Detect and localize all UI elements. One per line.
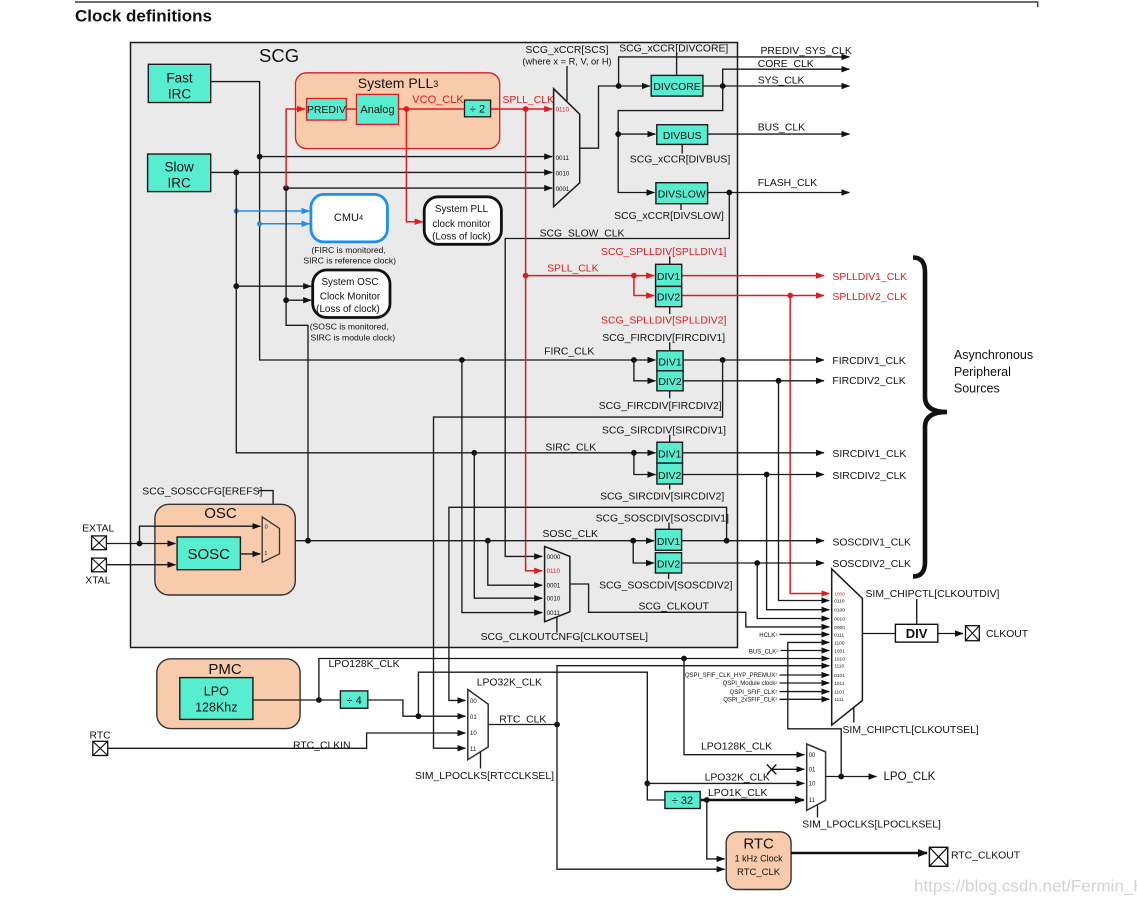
svg-text:PREDIV: PREDIV — [307, 104, 346, 116]
svg-text:1001: 1001 — [834, 648, 845, 654]
mux SIM_CHIPCTL[CLKOUTSEL] — [832, 569, 863, 725]
block CMU4 — [311, 194, 388, 242]
wire LPO32K to LPO mux 10 — [647, 782, 804, 784]
junction SOSCDIV1 tap — [724, 538, 730, 544]
wire 1kHz to RTC block — [707, 800, 725, 859]
svg-text:BUS_CLK2: BUS_CLK2 — [749, 648, 779, 656]
connector SCS config — [566, 66, 568, 101]
junction red VCO_CLK — [404, 106, 410, 112]
wire Slow IRC trunk (SIRC_CLK) — [211, 171, 553, 173]
svg-text:QSPI_SFIF_CLK_HYP_PREMUX2: QSPI_SFIF_CLK_HYP_PREMUX2 — [685, 672, 778, 679]
wire red PREDIV to Analog — [346, 108, 356, 110]
mux SIM_LPOCLKS[RTCCLKSEL] — [468, 690, 488, 760]
wire red VCO to PLL monitor — [406, 109, 422, 222]
wire LPO32K_CLK across — [418, 672, 665, 800]
svg-text:11: 11 — [470, 747, 477, 753]
wire Fast IRC trunk (FIRC_CLK) — [211, 82, 656, 360]
svg-text:DIV1: DIV1 — [657, 536, 681, 548]
svg-text:PREDIV_SYS_CLK: PREDIV_SYS_CLK — [761, 46, 852, 57]
block SOSCDIV DIV2 — [655, 553, 681, 573]
wire SIRC vertical trunk — [236, 172, 655, 452]
junction SOSC div branch — [630, 538, 636, 544]
svg-text:0110: 0110 — [547, 568, 561, 575]
junction red SPLLDIV2 tap — [787, 293, 793, 299]
svg-text:XTAL: XTAL — [85, 575, 110, 586]
svg-text:SCG_SOSCCFG[EREFS]: SCG_SOSCCFG[EREFS] — [142, 486, 262, 497]
wire SIRC to OSC monitor — [236, 285, 311, 287]
svg-text:SOSC_CLK: SOSC_CLK — [543, 529, 599, 540]
svg-text:LPO32K_CLK: LPO32K_CLK — [705, 772, 770, 783]
svg-text:BUS_CLK: BUS_CLK — [758, 123, 805, 134]
svg-text:SCG_CLKOUTCNFG[CLKOUTSEL]: SCG_CLKOUTCNFG[CLKOUTSEL] — [481, 632, 649, 643]
svg-text:CMU4: CMU4 — [334, 212, 363, 224]
wire RTC_CLK to SIM mux 1110 — [557, 666, 829, 725]
wire red SPLL vertical to CLKOUT mux 0110 — [526, 109, 543, 571]
svg-text:(Loss of clock): (Loss of clock) — [316, 304, 380, 315]
svg-text:Analog: Analog — [360, 104, 394, 116]
svg-text:FIRCDIV2_CLK: FIRCDIV2_CLK — [832, 376, 905, 387]
wire SOSCDIV1 tap to RTC mux 00 — [449, 507, 727, 700]
svg-text:1110: 1110 — [834, 664, 844, 670]
connector FIRCDIV configs — [669, 342, 671, 398]
wire red to SPLLDIV DIV2 — [634, 276, 654, 296]
svg-text:1 kHz Clock: 1 kHz Clock — [735, 854, 784, 864]
wire SIRC to DIV2 — [634, 453, 656, 475]
junction SIRC div branch — [631, 450, 637, 456]
mux SCS (SCG_xCCR[SCS]) — [554, 89, 580, 207]
connector SPLLDIV configs — [669, 257, 671, 315]
svg-text:SCG_xCCR[DIVSLOW]: SCG_xCCR[DIVSLOW] — [614, 211, 724, 222]
block Fast IRC — [148, 64, 210, 102]
svg-text:DIVBUS: DIVBUS — [663, 131, 702, 142]
svg-text:SPLL_CLK: SPLL_CLK — [547, 263, 598, 274]
svg-text:SPLLDIV2_CLK: SPLLDIV2_CLK — [832, 292, 907, 303]
wire SYS_CLK — [703, 85, 850, 87]
wire HCLK stub — [780, 633, 830, 635]
junction FIRC CLKOUT tap — [459, 357, 465, 363]
wire SOSCDIV2_CLK — [682, 562, 824, 564]
svg-text:SIRC_CLK: SIRC_CLK — [545, 442, 596, 453]
svg-text:RTC: RTC — [90, 731, 112, 742]
junction SOSC top trunk — [283, 185, 289, 191]
svg-text:0011: 0011 — [547, 610, 561, 617]
wire SCS mux output to DIVCORE — [580, 86, 650, 148]
block SIRCDIV DIV2 — [657, 463, 683, 484]
pad XTAL — [92, 558, 107, 572]
junction FIRC SCS tap — [257, 154, 263, 160]
wire SOSC to EREFS mux 1 — [240, 553, 260, 555]
block FIRCDIV DIV2 — [657, 371, 683, 391]
svg-text:SCG_FIRCDIV[FIRCDIV2]: SCG_FIRCDIV[FIRCDIV2] — [599, 401, 722, 412]
junction DIVCORE input — [616, 83, 622, 89]
svg-text:(FIRC is monitored,: (FIRC is monitored, — [311, 245, 386, 255]
block System PLL container — [296, 73, 500, 149]
wire SOSCDIV1_CLK — [682, 540, 824, 542]
connector SOSCDIV configs — [668, 523, 670, 580]
junction SOSC monitor tap — [283, 297, 289, 303]
block System PLL clock monitor — [424, 197, 501, 245]
svg-text:DIV: DIV — [906, 626, 928, 641]
svg-text:0: 0 — [265, 525, 268, 531]
svg-text:01: 01 — [470, 715, 477, 721]
svg-text:SIRCDIV2_CLK: SIRCDIV2_CLK — [832, 471, 906, 482]
page top rule — [75, 2, 1038, 7]
junction SIRC monitor tap — [233, 283, 239, 289]
svg-text:Peripheral: Peripheral — [954, 365, 1011, 379]
junction LPO32K tap — [416, 713, 422, 719]
svg-text:Fast: Fast — [166, 70, 193, 85]
wire SOSC trunk up to SCS 0001 — [286, 187, 552, 189]
svg-text:QSPI_Module clock2: QSPI_Module clock2 — [723, 680, 779, 687]
wire SIRC to CLKOUT mux 0010 — [474, 453, 542, 598]
svg-text:IRC: IRC — [168, 86, 192, 101]
mux EREFS — [262, 517, 279, 562]
wire FIRC to CLKOUT mux 0011 — [462, 360, 542, 613]
junction red SPLL_CLK — [523, 106, 529, 112]
wire SOSC trunk vertical — [286, 188, 308, 541]
svg-text:FIRCDIV1_CLK: FIRCDIV1_CLK — [832, 356, 905, 367]
svg-text:0001: 0001 — [556, 186, 570, 193]
svg-text:00: 00 — [809, 753, 816, 759]
svg-text:DIV1: DIV1 — [658, 356, 682, 368]
svg-text:0010: 0010 — [547, 596, 561, 603]
wire DIVBUS feed — [618, 133, 655, 135]
block divide-by-4 — [340, 691, 367, 708]
svg-text:0111: 0111 — [834, 632, 844, 638]
svg-text:1010: 1010 — [834, 657, 845, 663]
wire FIRCDIV2_CLK — [683, 380, 824, 382]
wire FIRCDIV2 to SIM mux 0110 — [779, 381, 830, 601]
mux SCG_CLKOUTCNFG — [545, 546, 570, 621]
wire QSPI premux stub — [780, 674, 830, 676]
junction SOSCDIV2 tap — [754, 560, 760, 566]
svg-text:1101: 1101 — [834, 690, 845, 696]
svg-text:CORE_CLK: CORE_CLK — [758, 59, 814, 70]
svg-text:SCG_xCCR[DIVCORE]: SCG_xCCR[DIVCORE] — [619, 44, 728, 55]
svg-text:RTC_CLKOUT: RTC_CLKOUT — [951, 850, 1021, 861]
wire SCG_SLOW_CLK to CLKOUT mux 0000 — [505, 193, 729, 557]
svg-text:DIVCORE: DIVCORE — [653, 82, 700, 93]
junction DIVBUS feed — [615, 131, 621, 137]
svg-text:10: 10 — [809, 782, 816, 788]
mux SIM_LPOCLKS[LPOCLKSEL] — [807, 744, 826, 810]
svg-text:÷ 4: ÷ 4 — [346, 695, 361, 707]
svg-text:0011: 0011 — [556, 155, 570, 162]
block DIV — [895, 624, 937, 642]
junction red SPLLDIV tap — [523, 273, 529, 279]
wire red SPLL_CLK to SCS 0110 — [491, 108, 553, 110]
wire red SPLLDIV1_CLK — [682, 275, 824, 277]
junction LPO_CLK — [838, 774, 844, 780]
wire SCG_CLKOUT to SIM mux 0000 — [570, 584, 829, 627]
wire SIM mux to DIV — [862, 633, 895, 635]
wire SOSC to OSC monitor — [286, 299, 311, 301]
junction LPO128K tap — [316, 697, 322, 703]
block PMC container — [157, 659, 300, 729]
svg-text:LPO1K_CLK: LPO1K_CLK — [708, 788, 768, 799]
svg-text:(Loss of lock): (Loss of lock) — [432, 231, 491, 242]
svg-text:0010: 0010 — [834, 616, 845, 622]
wire FIRCDIV1_CLK — [683, 359, 824, 361]
svg-text:LPO128K_CLK: LPO128K_CLK — [701, 742, 772, 753]
wire red SOSC to PREDIV — [286, 109, 305, 188]
svg-text:SIM_LPOCLKS[RTCCLKSEL]: SIM_LPOCLKS[RTCCLKSEL] — [415, 771, 554, 782]
svg-text:IRC: IRC — [167, 175, 191, 190]
svg-text:LPO128K_CLK: LPO128K_CLK — [329, 659, 400, 670]
wire blue CMU tap from SIRC — [236, 210, 309, 212]
junction SIRC CLKOUT tap — [471, 450, 477, 456]
wire red SPLLDIV2_CLK — [682, 295, 824, 297]
svg-text:SCG: SCG — [259, 45, 299, 66]
junction blue FIRC — [257, 221, 262, 226]
block SOSC — [177, 537, 240, 570]
svg-text:128Khz: 128Khz — [195, 700, 237, 714]
connector CLKOUTCNFG config — [556, 617, 558, 633]
wire CORE_CLK — [723, 69, 850, 86]
junction SOSC osc out — [305, 538, 311, 544]
block divide-by-32 — [665, 792, 700, 809]
svg-text:LPO: LPO — [204, 684, 229, 698]
block Analog — [357, 94, 399, 124]
wire QSPI 2xsfif stub — [780, 698, 830, 700]
wire red SPLL_CLK to SPLLDIV DIV1 — [526, 275, 655, 277]
svg-text:1000: 1000 — [834, 591, 845, 597]
svg-text:System OSC: System OSC — [321, 277, 378, 288]
wire div4 to RTC mux 01 — [368, 700, 466, 716]
svg-text:SCG_FIRCDIV[FIRCDIV1]: SCG_FIRCDIV[FIRCDIV1] — [602, 333, 725, 344]
junction FIRCDIV1 tap — [720, 357, 726, 363]
svg-text:SCG_SOSCDIV[SOSCDIV1]: SCG_SOSCDIV[SOSCDIV1] — [596, 514, 729, 525]
junction SIRC trunk — [233, 170, 239, 176]
svg-text:1100: 1100 — [834, 640, 845, 646]
wire RTC_CLKIN to RTC mux 10 — [108, 733, 466, 748]
wire LPO128K to LPO mux 00 — [684, 659, 804, 755]
svg-text:SOSCDIV1_CLK: SOSCDIV1_CLK — [832, 537, 911, 548]
svg-text:Clock definitions: Clock definitions — [75, 7, 212, 26]
svg-text:SIM_CHIPCTL[CLKOUTDIV]: SIM_CHIPCTL[CLKOUTDIV] — [866, 589, 1000, 600]
svg-text:SIM_LPOCLKS[LPOCLKSEL]: SIM_LPOCLKS[LPOCLKSEL] — [802, 819, 941, 830]
wire no-clock stub to LPO mux 01 — [772, 768, 805, 770]
svg-text:QSPI_2xSFIF_CLK2: QSPI_2xSFIF_CLK2 — [723, 696, 778, 703]
svg-text:SPLLDIV1_CLK: SPLLDIV1_CLK — [832, 272, 907, 283]
svg-text:0000: 0000 — [547, 554, 561, 561]
svg-text:FLASH_CLK: FLASH_CLK — [758, 178, 818, 189]
wire FIRCDIV1 tap to RTC mux 11 — [434, 360, 723, 748]
brace Asynchronous Peripheral Sources — [913, 258, 947, 577]
wire SIRCDIV2 to SIM mux 0100 — [767, 475, 830, 610]
wire SOSC to CLKOUT mux 0001 — [488, 541, 542, 586]
svg-text:Asynchronous: Asynchronous — [954, 348, 1033, 362]
svg-text:DIV1: DIV1 — [657, 271, 681, 283]
svg-text:00: 00 — [470, 699, 477, 705]
wire FIRC to SCS mux 0011 — [260, 156, 553, 158]
junction LPO128K to LPO mux branch — [681, 656, 687, 662]
svg-text:0101: 0101 — [834, 673, 845, 679]
block OSC container — [155, 504, 295, 595]
block System OSC Clock Monitor — [313, 270, 390, 318]
junction EXTAL branch — [137, 541, 143, 547]
wire FIRC to DIV2 — [634, 360, 656, 381]
svg-text:0001: 0001 — [547, 583, 561, 590]
svg-text:1011: 1011 — [834, 681, 845, 687]
junction FIRCDIV2 tap — [776, 378, 782, 384]
connector EREFS leader — [258, 491, 273, 524]
svg-text:Sources: Sources — [954, 382, 1000, 396]
connector SIRCDIV configs — [669, 435, 671, 490]
junction SOSC CLKOUT tap — [485, 538, 491, 544]
wire EXTAL to SOSC — [106, 543, 176, 545]
svg-text:DIV1: DIV1 — [658, 449, 682, 461]
svg-text:01: 01 — [809, 768, 816, 774]
svg-text:DIV2: DIV2 — [658, 376, 682, 388]
svg-text:SIM_CHIPCTL[CLKOUTSEL]: SIM_CHIPCTL[CLKOUTSEL] — [843, 725, 979, 736]
connector RTCCLKSEL config — [480, 752, 482, 769]
svg-text:OSC: OSC — [204, 505, 237, 522]
connector DIVBUS config — [681, 144, 683, 153]
block DIVBUS — [657, 125, 708, 145]
svg-text:QSPI_SFIF_CLK2: QSPI_SFIF_CLK2 — [730, 688, 779, 695]
wire blue CMU tap from FIRC — [260, 223, 310, 225]
junction blue SIRC — [234, 208, 239, 213]
svg-text:SPLL_CLK: SPLL_CLK — [503, 95, 554, 106]
wire SOSCDIV2 to SIM mux 0010 — [757, 563, 829, 619]
connector DIVCORE config — [676, 54, 678, 76]
junction LPO1K — [704, 797, 710, 803]
connector DIVSLOW config — [680, 204, 682, 210]
wire SOSC_CLK trunk — [280, 540, 655, 542]
wire LPO_CLK to SIM mux 1100 — [788, 642, 841, 776]
svg-text:clock monitor: clock monitor — [432, 219, 491, 230]
svg-text:÷ 2: ÷ 2 — [470, 104, 485, 116]
svg-text:SCG_CLKOUT: SCG_CLKOUT — [639, 602, 710, 613]
block RTC container — [726, 832, 791, 890]
block divide-by-2 — [465, 100, 491, 117]
junction SIRCDIV2 tap — [764, 472, 770, 478]
svg-text:÷ 32: ÷ 32 — [672, 795, 693, 807]
wire SIRCDIV1_CLK — [683, 452, 825, 454]
svg-text:10: 10 — [470, 731, 477, 737]
svg-text:DIVSLOW: DIVSLOW — [658, 190, 706, 201]
wire RTC_CLK to RTC block — [557, 725, 725, 870]
svg-text:SCG_SLOW_CLK: SCG_SLOW_CLK — [540, 228, 625, 239]
svg-text:SIRC is reference clock): SIRC is reference clock) — [303, 256, 396, 266]
svg-text:https://blog.csdn.net/Fermin_H: https://blog.csdn.net/Fermin_H — [914, 877, 1137, 896]
svg-text:DIV2: DIV2 — [658, 470, 682, 482]
svg-text:SCG_SIRCDIV[SIRCDIV2]: SCG_SIRCDIV[SIRCDIV2] — [600, 491, 724, 502]
svg-text:RTC: RTC — [743, 835, 774, 852]
wire RTC_CLKOUT thick — [791, 852, 927, 854]
svg-text:PMC: PMC — [208, 661, 242, 678]
svg-text:1: 1 — [264, 551, 267, 557]
svg-text:SCG_SPLLDIV[SPLLDIV2]: SCG_SPLLDIV[SPLLDIV2] — [601, 316, 726, 327]
wire FLASH_CLK — [708, 192, 850, 194]
svg-text:FIRC_CLK: FIRC_CLK — [544, 346, 594, 357]
svg-text:0110: 0110 — [556, 107, 570, 114]
SCG container box — [131, 43, 738, 648]
wire LPO1K thick to LPO mux 11 — [700, 799, 804, 801]
svg-text:Clock Monitor: Clock Monitor — [320, 292, 381, 303]
junction DIVCORE output — [720, 83, 726, 89]
svg-text:HCLK1: HCLK1 — [759, 632, 778, 640]
svg-text:(where x = R, V, or H): (where x = R, V, or H) — [522, 56, 611, 66]
svg-text:1111: 1111 — [834, 697, 844, 703]
svg-text:LPO_CLK: LPO_CLK — [884, 771, 936, 783]
wire LPO_CLK out — [826, 776, 877, 778]
svg-text:SCG_SIRCDIV[SIRCDIV1]: SCG_SIRCDIV[SIRCDIV1] — [602, 426, 726, 437]
svg-text:CLKOUT: CLKOUT — [986, 629, 1029, 640]
wire QSPI module stub — [780, 682, 830, 684]
svg-text:RTC_CLKIN: RTC_CLKIN — [293, 741, 351, 752]
wire SOSC to DIV2 — [633, 541, 654, 563]
block SIRCDIV DIV1 — [657, 442, 683, 463]
block DIVSLOW — [656, 183, 708, 204]
connector LPOCLKSEL config — [817, 806, 819, 818]
svg-text:SCG_SOSCDIV[SOSCDIV2]: SCG_SOSCDIV[SOSCDIV2] — [599, 580, 732, 591]
svg-text:VCO_CLK: VCO_CLK — [412, 94, 464, 106]
svg-text:0110: 0110 — [834, 598, 845, 604]
connector CLKOUTSEL config — [853, 708, 855, 723]
connector CLKOUTDIV config — [916, 599, 918, 624]
wire red Analog to div2 — [399, 108, 465, 110]
block PREDIV — [307, 99, 347, 121]
block FIRCDIV DIV1 — [657, 351, 683, 371]
wire SIRCDIV2_CLK — [683, 474, 825, 476]
junction red SPLLDIV branch — [631, 273, 637, 279]
junction FIRC div branch — [631, 357, 637, 363]
junction LPO32K to LPO mux — [644, 781, 650, 787]
svg-text:0000: 0000 — [834, 625, 845, 631]
block SPLLDIV DIV2 — [656, 286, 682, 306]
junction RTC_CLK — [554, 722, 560, 728]
svg-text:0010: 0010 — [556, 171, 570, 178]
svg-text:EXTAL: EXTAL — [82, 524, 114, 535]
svg-text:RTC_CLK: RTC_CLK — [737, 867, 781, 878]
svg-text:System PLL3: System PLL3 — [358, 75, 439, 91]
svg-text:SIRCDIV1_CLK: SIRCDIV1_CLK — [832, 449, 906, 460]
svg-text:0100: 0100 — [834, 608, 845, 614]
junction FLASH_CLK tap — [726, 190, 732, 196]
block LPO 128Khz — [180, 678, 253, 720]
block Slow IRC — [148, 154, 211, 192]
svg-text:Slow: Slow — [164, 159, 194, 174]
wire BUS_CLK stub — [781, 650, 830, 652]
svg-text:SOSC: SOSC — [187, 546, 230, 563]
svg-text:11: 11 — [809, 798, 816, 804]
svg-text:SCG_xCCR[DIVBUS]: SCG_xCCR[DIVBUS] — [630, 155, 731, 166]
block SOSCDIV DIV1 — [655, 529, 681, 550]
svg-text:System PLL: System PLL — [435, 204, 489, 215]
svg-text:(SOSC is monitored,: (SOSC is monitored, — [310, 321, 389, 331]
wire core clock to DIVBUS DIVSLOW column — [618, 86, 723, 193]
block SPLLDIV DIV1 — [656, 264, 682, 286]
wire EXTAL to EREFS mux 0 — [140, 526, 261, 543]
wire PREDIV_SYS_CLK — [619, 57, 850, 86]
block DIVCORE — [651, 75, 703, 96]
wire XTAL to SOSC — [106, 564, 176, 566]
svg-text:SCG_xCCR[SCS]: SCG_xCCR[SCS] — [525, 45, 608, 56]
svg-text:DIV2: DIV2 — [657, 559, 681, 571]
svg-text:DIV2: DIV2 — [657, 292, 681, 304]
svg-text:SYS_CLK: SYS_CLK — [758, 76, 805, 87]
svg-text:SIRC is module clock): SIRC is module clock) — [311, 332, 396, 342]
wire LPO out to div4 — [253, 699, 340, 701]
wire RTC_CLK out — [488, 724, 557, 726]
wire red SPLLDIV2 to SIM mux 1000 — [790, 296, 829, 594]
wire QSPI sfif stub — [780, 691, 830, 693]
svg-text:LPO32K_CLK: LPO32K_CLK — [477, 678, 542, 689]
x-mark no clock — [767, 765, 776, 775]
svg-text:SOSCDIV2_CLK: SOSCDIV2_CLK — [832, 559, 911, 570]
